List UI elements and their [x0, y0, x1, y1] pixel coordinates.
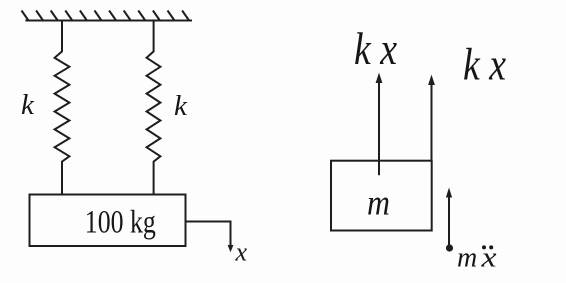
force arrow kx left (upward) — [378, 81, 380, 175]
svg-text:k x: k x — [463, 39, 506, 90]
spring k1 (left) — [55, 21, 70, 195]
arrow x (displacement, down) — [228, 245, 234, 252]
svg-text:k: k — [21, 89, 35, 121]
svg-text:k x: k x — [354, 23, 397, 74]
inertia arrow m xdd (upward) — [448, 196, 450, 247]
svg-text:100 kg: 100 kg — [85, 205, 156, 241]
svg-text:k: k — [174, 90, 188, 122]
mass block 100 kg — [30, 195, 186, 247]
svg-text:x: x — [235, 238, 248, 267]
wire: displacement reference line — [186, 222, 231, 247]
ceiling line (fixed support) — [25, 20, 192, 22]
node dot (inertia arrow base) — [446, 244, 453, 251]
spring k2 (right) — [147, 21, 161, 195]
force arrow kx right (upward) — [431, 83, 433, 161]
ceiling hatching — [22, 11, 190, 21]
svg-text:m: m — [457, 243, 477, 274]
svg-text:m: m — [367, 183, 390, 223]
FBD mass box m — [331, 161, 432, 231]
